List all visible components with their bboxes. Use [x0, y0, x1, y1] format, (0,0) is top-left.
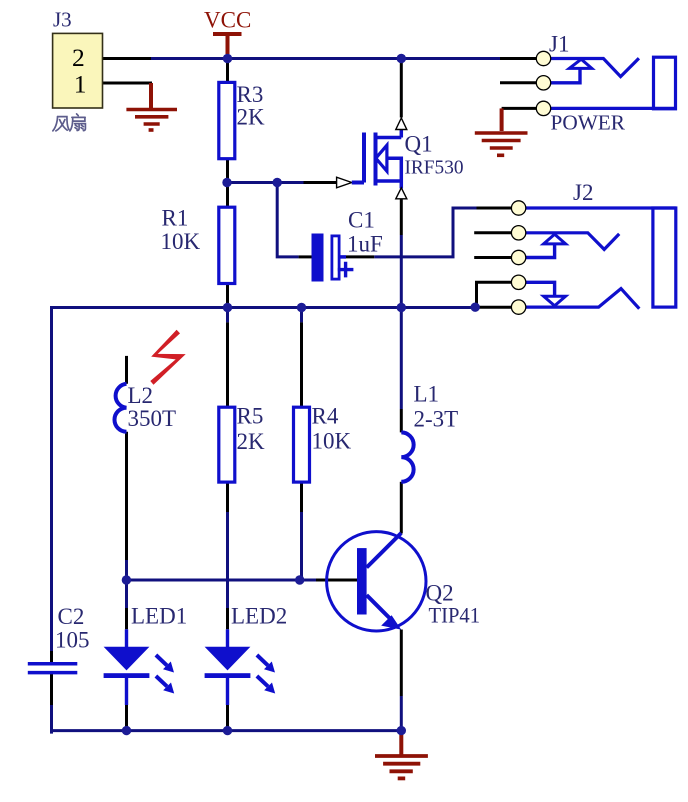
- wire: C1 branch down from gate net: [277, 183, 298, 257]
- svg-text:R5: R5: [237, 404, 264, 429]
- resistor R5: [219, 404, 265, 483]
- svg-text:2K: 2K: [237, 429, 266, 454]
- wire: R3 bottom pin: [226, 159, 229, 183]
- pin circle 5: [511, 300, 525, 314]
- capacitor C2: [28, 604, 90, 673]
- ground at Q2 emitter: [375, 731, 428, 779]
- node: LED wire junction R4/base: [295, 575, 304, 584]
- svg-text:R1: R1: [162, 206, 189, 231]
- node: mid rail junction R5: [223, 303, 232, 312]
- wire: R1 bottom pin: [226, 284, 229, 308]
- transistor Q2 TIP41: [327, 532, 480, 631]
- wire: LED1 bottom blue pin: [125, 677, 128, 705]
- wire: Q1 drain black wire: [400, 59, 403, 118]
- wire: L2-LED1 navy segment: [125, 560, 128, 608]
- wire: left rail below C2: [52, 673, 54, 733]
- capacitor C1: [312, 208, 383, 282]
- wire: C1 right wire: [374, 208, 476, 257]
- gate plate: [362, 133, 366, 183]
- wire: LED2 bottom blue pin: [226, 677, 229, 705]
- wire: left rail vertical C2 branch: [50, 306, 53, 651]
- svg-text:350T: 350T: [128, 406, 177, 431]
- barrel rectangle: [653, 208, 676, 307]
- svg-text:J1: J1: [549, 32, 569, 57]
- tip line into barrel top: [526, 206, 676, 209]
- ground at J3: [126, 83, 177, 130]
- wire: LED1 top blue pin: [125, 629, 128, 647]
- pin circle 1: [536, 51, 550, 65]
- wire: L2 bottom pin: [125, 432, 128, 560]
- svg-text:R4: R4: [312, 404, 339, 429]
- wire: top rail VCC net: [151, 57, 500, 60]
- wire: L1 top navy: [400, 308, 403, 410]
- wire: C2 bottom black pin: [50, 673, 53, 705]
- connector J3: [53, 7, 103, 131]
- wire: LED2 top black segment: [226, 608, 229, 629]
- svg-text:J3: J3: [53, 7, 72, 31]
- transistor Q1 MOSFET IRF530: [337, 118, 464, 199]
- inductor L1: [401, 382, 458, 482]
- wire: J3 pin2 stub: [103, 57, 152, 60]
- wire: LED wire y=580: [126, 579, 316, 582]
- node: ground rail junction Q2 emitter: [397, 726, 406, 735]
- svg-text:LED1: LED1: [131, 604, 187, 629]
- wire: J2 pin2 stub NC: [474, 231, 511, 234]
- wire: Q1 source navy wire to mid rail: [400, 235, 403, 308]
- wire: R5 top black pin: [226, 322, 229, 407]
- node: mid rail junction R4: [297, 303, 306, 312]
- node: mid rail junction Q1 source / L1: [397, 303, 406, 312]
- pin circle 2: [511, 226, 525, 240]
- svg-text:2K: 2K: [237, 105, 266, 130]
- wire: gate net horizontal navy: [227, 181, 304, 184]
- ring arrow stem: [526, 244, 555, 258]
- sleeve line with peak: [526, 289, 639, 309]
- svg-text:TIP41: TIP41: [429, 603, 481, 628]
- ring line and switch V: [526, 233, 619, 250]
- svg-text:C1: C1: [348, 208, 375, 233]
- wire: Q1 source blue stub above arrow: [400, 181, 404, 189]
- resistor R1: [161, 206, 235, 284]
- node: mid rail junction J2 pin4/5: [471, 303, 480, 312]
- svg-text:10K: 10K: [161, 229, 201, 254]
- pin circle 4: [511, 275, 525, 289]
- pin circle 3: [536, 101, 550, 115]
- ring arrow outline: [544, 234, 566, 244]
- svg-text:L1: L1: [414, 382, 440, 407]
- node: ground rail junction LED2: [223, 726, 232, 735]
- wire: R4 top black pin: [300, 322, 303, 407]
- source stub: [376, 179, 402, 183]
- wire: R4 bottom navy to base wire: [300, 512, 303, 580]
- wire: J2 pin3 stub NC: [474, 256, 511, 259]
- pin4 down arrow outline: [544, 296, 566, 306]
- tip arrow stem: [551, 68, 580, 82]
- wire: L2 top free end: [125, 356, 128, 384]
- wire: R3 top pin: [226, 59, 229, 83]
- drain stub: [376, 136, 402, 140]
- gate lead: [352, 181, 364, 185]
- gate input arrow (hollow): [337, 177, 352, 188]
- wire: R4 top navy stub: [300, 308, 303, 323]
- wire: L1 bottom pin to Q2 collector: [400, 482, 403, 534]
- wire: J3 pin1 stub: [103, 82, 153, 85]
- wire: bottom ground rail: [52, 729, 402, 732]
- svg-text:LED2: LED2: [231, 604, 287, 629]
- LED1: [104, 604, 188, 694]
- substrate link: [387, 158, 401, 181]
- svg-text:2-3T: 2-3T: [414, 407, 459, 432]
- ground at J1: [475, 108, 528, 155]
- wire: LED1 bottom black segment: [125, 705, 128, 728]
- resistor R4: [294, 404, 352, 483]
- wire: top rail black pin segment to J1 pin1: [500, 57, 537, 60]
- wire: J1 pin2 stub NC: [500, 81, 537, 84]
- power VCC symbol: [204, 8, 251, 55]
- svg-text:1: 1: [74, 69, 87, 98]
- pin4 stem down: [526, 282, 555, 296]
- wire: L1 top black pin: [400, 409, 403, 432]
- wire: Q2 emitter navy wire to ground rail: [400, 696, 403, 731]
- svg-text:L2: L2: [128, 383, 154, 408]
- node: gate net junction at R3 bottom: [222, 178, 231, 187]
- node: Q1 drain junction on top rail: [397, 54, 406, 63]
- wire: Q2 emitter black wire: [400, 630, 403, 697]
- svg-text:Q1: Q1: [405, 132, 433, 157]
- svg-text:2: 2: [72, 43, 85, 72]
- wire: J1 pin3 black pin: [502, 107, 537, 110]
- svg-text:IRF530: IRF530: [405, 157, 464, 179]
- wire: C2 top black pin: [50, 651, 53, 664]
- node: VCC junction: [223, 54, 232, 63]
- drain pin arrow (hollow): [396, 118, 407, 130]
- svg-text:POWER: POWER: [551, 111, 626, 135]
- wire: J2 pin1 black pin: [477, 207, 512, 210]
- tip arrow outline: [569, 59, 592, 68]
- wire: LED2 top blue pin: [226, 629, 229, 647]
- LED2: [205, 604, 288, 694]
- wire: mid rail (base net) y=307: [52, 306, 477, 309]
- node: gate net junction to C1: [273, 178, 282, 187]
- wire: J2 pin5 black pin: [475, 306, 511, 309]
- resistor R3: [219, 82, 265, 159]
- jack tip line and switch V: [551, 58, 639, 76]
- wire: R5 bottom pin to LED2: [226, 482, 229, 512]
- wire: R4 bottom pin: [300, 482, 303, 512]
- wire: Q1 gate black pin: [304, 181, 337, 184]
- svg-text:VCC: VCC: [204, 8, 251, 33]
- wire: LED1 top black segment: [125, 608, 128, 629]
- svg-text:1uF: 1uF: [347, 232, 383, 257]
- channel plate: [374, 133, 378, 186]
- svg-text:10K: 10K: [312, 429, 352, 454]
- substrate arrow (hollow pointing left): [376, 145, 387, 171]
- node: ground rail junction LED1: [122, 726, 131, 735]
- wire: Q1 source black wire: [400, 199, 403, 235]
- svg-text:R3: R3: [237, 82, 264, 107]
- connector J1: [536, 32, 675, 135]
- pin circle 3: [511, 250, 525, 264]
- wire: C1 right black pin: [346, 255, 374, 258]
- inductor L2: [115, 383, 177, 432]
- pin circle 2: [536, 76, 550, 90]
- wire: Q1 drain blue stub below arrow: [400, 129, 404, 138]
- svg-text:C2: C2: [58, 604, 85, 629]
- connector J2: [511, 180, 675, 314]
- source pin arrow (hollow): [396, 188, 407, 199]
- label fengshan (fan) drawn glyphs: [53, 114, 86, 131]
- svg-text:J2: J2: [573, 180, 593, 205]
- wire: Q2 base black pin: [316, 579, 358, 582]
- wire: R5 top navy stub: [226, 308, 229, 323]
- wire: R1 top pin: [226, 183, 229, 208]
- node: LED wire junction L2/LED1: [122, 575, 131, 584]
- pin circle 1: [511, 201, 525, 215]
- barrel rectangle: [654, 57, 676, 109]
- wire: J2 pin4 black pin and drop: [477, 282, 512, 307]
- wire: R5-LED2 navy segment: [226, 512, 229, 608]
- lightning bolt (spark): [150, 330, 185, 385]
- wire: LED2 bottom black segment: [226, 705, 229, 728]
- sleeve line: [551, 107, 676, 110]
- wire: C1 left black pin: [299, 255, 312, 258]
- svg-text:105: 105: [55, 628, 90, 653]
